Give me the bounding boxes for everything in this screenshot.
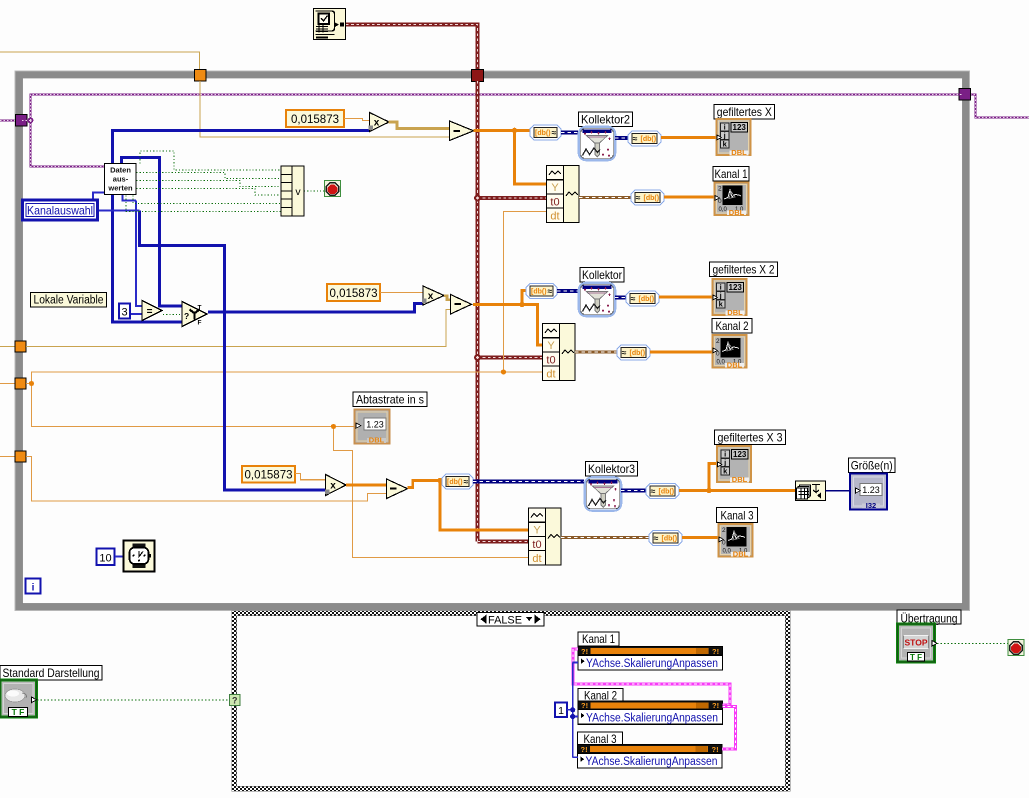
Kanal 1 property node label	[578, 632, 619, 646]
wire: boolean from Standard Darstellung to case selector	[37, 699, 229, 701]
svg-text:Kanal 1: Kanal 1	[715, 167, 748, 181]
wire: tan scalar from left edge to top tunnel	[0, 52, 200, 70]
svg-text:Kanal 1: Kanal 1	[582, 632, 615, 646]
Abtastrate label	[353, 392, 427, 407]
wire: error cluster vertical trunk with branches to t0 inputs	[478, 81, 547, 542]
wire: boolean equals to select	[163, 314, 182, 316]
svg-text:T F: T F	[910, 653, 922, 662]
wire: DDT to Kollektor	[557, 289, 578, 293]
constant 0,015873 row3	[242, 466, 295, 483]
wire: boolean 4	[137, 189, 282, 196]
svg-text:?!: ?!	[581, 701, 588, 710]
toDDT node row1	[530, 125, 561, 140]
wire: boolean 5	[133, 196, 281, 204]
wire: subtract1 output to toDDT1 and down to BW1 Y	[474, 131, 547, 185]
svg-text:x: x	[428, 291, 434, 302]
wire: VISA purple exiting right tunnel to right edge	[970, 95, 1029, 118]
svg-text:Lokale Variable: Lokale Variable	[34, 295, 104, 307]
wire: constant to multiply2	[380, 292, 423, 294]
svg-text:x: x	[374, 118, 380, 129]
svg-text:Kollektor: Kollektor	[582, 268, 622, 282]
wire: subtract2 output to toDDT2 and BW2 Y	[473, 291, 542, 346]
wire: blue array to multiply3	[140, 211, 327, 491]
subtract node row1	[450, 121, 474, 141]
Groesse(n) I32 indicator	[850, 474, 887, 511]
wire: orange to Kanal 2	[650, 351, 712, 354]
svg-text:?: ?	[184, 311, 189, 321]
toDDT node row3	[442, 474, 473, 489]
Kollektor3 label	[586, 462, 638, 477]
wire: DDT to Kollektor2	[561, 131, 578, 135]
LED indicator right edge	[1008, 640, 1024, 656]
Kanal 1 waveform terminal	[715, 183, 749, 217]
svg-text:werten: werten	[107, 184, 133, 193]
svg-text:STOP: STOP	[905, 637, 928, 647]
wire: orange stub into left tunnel C	[0, 456, 16, 458]
svg-text:Kanal 3: Kanal 3	[584, 732, 617, 746]
wire: orange to Kanal 1	[664, 196, 714, 199]
Kanal 2 property node label	[578, 689, 623, 703]
Kanal 1 property node	[578, 647, 723, 671]
Kanal 3 label	[717, 508, 758, 523]
wire: boolean 1	[140, 151, 281, 170]
toDDT node row2	[526, 284, 557, 299]
wire: constant to multiply3	[295, 474, 326, 480]
svg-text:i: i	[32, 583, 35, 594]
junction: orange dot row3	[437, 478, 443, 484]
wire: pink reference node2 to node3	[722, 707, 736, 749]
svg-text:Kanal 2: Kanal 2	[716, 319, 749, 333]
Kollektor2 subVI icon	[579, 127, 615, 160]
array size node	[796, 481, 826, 501]
svg-text:=: =	[147, 307, 153, 318]
svg-text:FALSE: FALSE	[488, 615, 522, 627]
Standard Darstellung label	[0, 666, 102, 681]
constant 1	[555, 703, 567, 718]
junction: orange dot at tunnel B split	[29, 381, 34, 386]
tunnel: VISA right	[959, 89, 971, 101]
wire: waveform BW2 to fromDDT	[575, 350, 617, 353]
svg-text:Abtastrate in s: Abtastrate in s	[356, 393, 424, 407]
svg-text:x: x	[330, 481, 336, 492]
build waveform 1	[547, 166, 580, 223]
junction: VISA wire ring	[28, 118, 32, 122]
wire: DDT to Kollektor3	[473, 480, 584, 484]
svg-text:1: 1	[558, 705, 564, 717]
svg-text:0,015873: 0,015873	[291, 112, 339, 126]
fromDDT node row3b	[649, 531, 682, 546]
svg-text:YAchse.SkalierungAnpassen: YAchse.SkalierungAnpassen	[586, 658, 718, 670]
wire: VISA purple from left edge to left tunnel	[0, 119, 16, 121]
fromDDT node row2b	[617, 345, 650, 360]
wire: 10 to wait	[115, 556, 123, 558]
wire: DDT Kollektor2 to fromDDT	[615, 136, 628, 140]
tunnel: VISA left (shift register style)	[16, 115, 28, 127]
LED indicator after OR	[325, 181, 341, 197]
gefiltertes X 2 label	[710, 262, 778, 277]
svg-text:gefiltertes X 2: gefiltertes X 2	[713, 263, 775, 277]
wire: tan from top tunnel down and right to subtract1 lower input	[200, 81, 451, 137]
svg-text:Daten: Daten	[110, 166, 131, 175]
wire: constant 3 to equals	[130, 313, 142, 315]
wire: orange from tunnel B to dt inputs and Abtastrate	[26, 212, 546, 558]
Kollektor2 label	[579, 112, 633, 127]
wire: orange to gefiltertes X	[661, 136, 716, 139]
Groesse(n) label	[849, 458, 896, 473]
junction: blue dots	[570, 707, 575, 712]
Standard Darstellung boolean control	[0, 680, 37, 717]
Kanal 3 property node	[578, 745, 723, 769]
svg-text:1.23: 1.23	[366, 420, 384, 430]
svg-text:T F: T F	[12, 707, 25, 717]
wire: boolean 6	[126, 196, 281, 212]
svg-text:I32: I32	[866, 501, 876, 510]
svg-text:T: T	[198, 305, 202, 312]
svg-text:v: v	[295, 186, 301, 198]
wire: blue array from Daten top pin to select t input	[122, 158, 183, 307]
wait (ms) clock node	[124, 541, 155, 572]
wire: multiply3 to subtract3	[346, 484, 387, 487]
build waveform 3	[529, 508, 562, 565]
subtract node row2	[451, 295, 472, 315]
svg-text:Größe(n): Größe(n)	[851, 459, 893, 473]
svg-text:F: F	[198, 320, 202, 327]
Uebertragung label	[897, 610, 961, 625]
Kollektor subVI icon	[579, 283, 615, 316]
svg-text:Kanalauswahl: Kanalauswahl	[27, 204, 93, 218]
svg-text:0,015873: 0,015873	[245, 468, 293, 482]
junction: orange dot row1	[512, 128, 518, 134]
fromDDT node row1b	[631, 190, 664, 205]
svg-text:?: ?	[232, 696, 238, 706]
svg-text:Standard Darstellung: Standard Darstellung	[3, 666, 100, 680]
gefiltertes X label	[714, 105, 775, 120]
wire: blue 1 to property node inputs	[567, 663, 578, 758]
multiply node row3	[325, 475, 346, 496]
svg-text:Kollektor3: Kollektor3	[588, 462, 635, 476]
junction: error wire ring 2	[474, 354, 481, 361]
wire: orange stub into left tunnel B	[0, 383, 16, 385]
wire: tan from tunnel A to subtract2 lower input	[26, 310, 451, 347]
svg-text:Kanal 3: Kanal 3	[721, 509, 754, 523]
wire: I32 to Groesse(n)	[826, 490, 851, 492]
case selector terminal ?	[230, 695, 241, 706]
fromDDT node row2a	[626, 291, 659, 306]
tunnel: orange top (sample offset)	[195, 70, 207, 82]
multiply node row2	[422, 286, 444, 305]
wire: DDT Kollektor to fromDDT	[615, 296, 626, 300]
svg-text:?!: ?!	[712, 701, 719, 710]
wire: blue array to multiply1	[113, 131, 370, 164]
Kanal 3 property node label	[578, 732, 623, 746]
constant 0,015873 row1	[286, 110, 344, 127]
junction: orange dot at Abtastrate branch	[331, 424, 336, 429]
Kanal 2 property node	[578, 701, 723, 725]
wire: Kanalauswahl scalar to subVI and equals	[93, 193, 142, 307]
svg-text:10: 10	[99, 553, 111, 565]
svg-text:Kollektor2: Kollektor2	[581, 113, 630, 127]
tunnel: orange left C	[15, 451, 26, 462]
wire: orange to Kanal 3	[682, 536, 718, 539]
subtract node row3	[387, 479, 408, 499]
Kanal 2 waveform terminal	[713, 335, 747, 369]
wire: waveform BW1 to fromDDT	[579, 196, 631, 199]
junction: error wire ring 1	[474, 195, 481, 202]
gefiltertes X 2 array indicator	[713, 279, 747, 317]
fromDDT node row3a	[646, 484, 679, 499]
multiply node row1	[369, 113, 390, 132]
wire: blue array from Daten bottom pin to select f input	[113, 195, 183, 322]
Abtastrate DBL control terminal	[355, 410, 390, 445]
Kanal 2 label	[712, 319, 752, 334]
wire: orange to array size with branch to gefiltertes X 3	[679, 464, 796, 491]
build waveform 2	[543, 324, 576, 381]
gefiltertes X 3 label	[715, 430, 786, 445]
gefiltertes X array indicator	[717, 119, 751, 157]
wire: orange to gefiltertes X 2	[659, 296, 712, 299]
svg-text:0,015873: 0,015873	[330, 286, 378, 300]
svg-text:3: 3	[121, 307, 127, 319]
svg-text:aus-: aus-	[113, 175, 129, 184]
wire: orange stub into left tunnel A	[0, 346, 16, 348]
svg-text:gefiltertes X 3: gefiltertes X 3	[718, 431, 783, 445]
fromDDT node row1a	[628, 131, 661, 146]
wire: boolean 3	[137, 181, 282, 187]
wire: pink reference node1 to node2	[573, 649, 730, 705]
wire: boolean OR output to LED	[304, 190, 324, 192]
tunnel: orange left A	[15, 341, 26, 352]
constant 0,015873 row2	[327, 284, 380, 301]
svg-text:?!: ?!	[581, 647, 588, 656]
constant 10	[97, 549, 115, 566]
Kanal 1 label	[713, 167, 749, 182]
junction: orange dot row3 out	[706, 488, 712, 494]
wire: select output to multiply2	[208, 304, 423, 313]
svg-text:YAchse.SkalierungAnpassen: YAchse.SkalierungAnpassen	[586, 756, 718, 768]
wire: DDT Kollektor3 to fromDDT	[621, 489, 646, 493]
Kollektor3 subVI icon	[585, 477, 621, 510]
tunnel: error cluster top	[472, 70, 484, 82]
svg-text:?!: ?!	[712, 647, 719, 656]
junction: orange dot at dt trunk	[501, 369, 506, 374]
junction: orange dot row2	[519, 302, 525, 308]
Uebertragung boolean STOP control	[898, 624, 938, 662]
wire: multiply2 to subtract2	[444, 296, 451, 300]
svg-text:1.23: 1.23	[862, 485, 880, 495]
wire: VISA purple inside loop	[22, 95, 963, 167]
case selector label FALSE	[477, 613, 544, 627]
Kanal 3 waveform terminal	[719, 524, 753, 558]
svg-text:?!: ?!	[581, 745, 588, 754]
wire: subtract3 output to toDDT3 and BW3 Y	[408, 481, 529, 530]
wire: error cluster from VISA icon to top tunnel	[346, 25, 478, 71]
tunnel: orange left B	[15, 378, 26, 389]
wire: orange from tunnel C to subtract3 lower input	[26, 457, 387, 502]
gefiltertes X 3 array indicator	[717, 446, 751, 484]
svg-text:YAchse.SkalierungAnpassen: YAchse.SkalierungAnpassen	[586, 712, 718, 724]
svg-text:?!: ?!	[712, 745, 719, 754]
svg-text:gefiltertes X: gefiltertes X	[717, 105, 772, 119]
wire: waveform BW3 to fromDDT	[561, 536, 649, 539]
svg-text:DBL: DBL	[369, 435, 385, 444]
wire: constant to multiply1	[344, 119, 369, 121]
wire: multiply1 to subtract1	[389, 122, 450, 129]
Kollektor label	[580, 268, 624, 283]
wire: boolean 2	[137, 173, 282, 179]
wire: boolean STOP to LED	[937, 643, 1008, 645]
